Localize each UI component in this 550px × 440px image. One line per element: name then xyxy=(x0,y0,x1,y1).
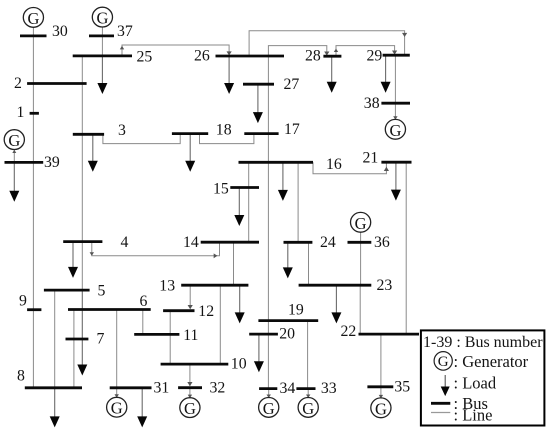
svg-text:25: 25 xyxy=(137,49,153,66)
svg-text:31: 31 xyxy=(154,380,170,397)
arrowhead 26-28 end xyxy=(324,51,329,55)
bus 24 xyxy=(284,241,313,244)
wire 34 to G34 xyxy=(268,389,270,398)
wire 29-38 xyxy=(394,55,396,103)
bus 30 xyxy=(20,35,47,38)
bus 7 xyxy=(66,338,89,341)
svg-text:16: 16 xyxy=(326,156,342,173)
bus 10 xyxy=(161,363,229,366)
svg-text:34: 34 xyxy=(280,380,296,397)
svg-text:G: G xyxy=(263,399,275,418)
svg-text:10: 10 xyxy=(231,356,247,373)
generator G at bus 37 xyxy=(92,7,112,27)
bus 17 xyxy=(244,132,278,135)
load at bus 24 xyxy=(283,242,293,278)
generator G at bus 39 xyxy=(4,130,24,150)
svg-text:19: 19 xyxy=(288,301,304,318)
generator G at bus 34 xyxy=(259,398,279,418)
load at bus 13 xyxy=(235,285,245,323)
wire G36 stub xyxy=(360,232,362,243)
wire line 26-28 xyxy=(268,46,326,56)
bus 4 xyxy=(63,240,102,243)
svg-text:: Load: : Load xyxy=(454,374,497,393)
bus 8 xyxy=(25,386,82,389)
wire 22-35 xyxy=(380,334,382,387)
load at bus 26 xyxy=(224,56,234,94)
wire 6-7-8 xyxy=(73,310,75,388)
svg-text:37: 37 xyxy=(117,23,133,40)
arrowhead into G32 xyxy=(188,395,192,399)
svg-text:17: 17 xyxy=(284,121,300,138)
svg-text:30: 30 xyxy=(52,23,68,40)
svg-text:13: 13 xyxy=(159,278,175,295)
legend box xyxy=(421,330,545,425)
bus 12 xyxy=(163,309,194,312)
wire 6-31 xyxy=(116,310,118,388)
arrowhead into G38 xyxy=(393,116,397,120)
bus 25 xyxy=(73,55,132,58)
wire 6-11 xyxy=(142,310,144,335)
wire 14-13 xyxy=(233,242,235,285)
bus 15 xyxy=(230,186,259,189)
wire 12-11-10 xyxy=(169,311,171,364)
bus 39 xyxy=(5,161,44,164)
generator G at bus 35 xyxy=(371,398,391,418)
wire 10-32 xyxy=(189,364,191,386)
svg-text:9: 9 xyxy=(19,292,27,309)
svg-text:1: 1 xyxy=(17,104,25,121)
load at bus 15 xyxy=(234,188,244,227)
load at bus 18 xyxy=(185,134,195,172)
wire G37 to 37 to 25 xyxy=(101,27,103,56)
wire 23-22 xyxy=(359,285,361,334)
svg-text:5: 5 xyxy=(98,283,106,300)
generator G at bus 30 xyxy=(23,8,43,28)
load at bus 29 xyxy=(381,55,391,93)
bus 28 xyxy=(323,55,341,58)
arrowhead 28-29 end xyxy=(392,50,397,54)
bus 16 xyxy=(239,161,314,164)
bus 37 xyxy=(89,35,114,38)
svg-text:G: G xyxy=(389,121,401,140)
svg-text:35: 35 xyxy=(394,379,410,396)
svg-text:G: G xyxy=(111,399,123,418)
load at bus 21 xyxy=(391,162,401,200)
bus 36 xyxy=(348,241,372,244)
svg-text:2: 2 xyxy=(14,75,22,92)
bus 31 xyxy=(110,386,152,389)
svg-text:22: 22 xyxy=(341,323,357,340)
svg-text:G: G xyxy=(355,214,367,233)
arrowhead 10-32 end xyxy=(187,382,192,386)
arrowhead 16-21 end xyxy=(384,167,389,171)
wire 32 to G32 xyxy=(189,388,191,398)
svg-text:4: 4 xyxy=(121,234,129,251)
arrowhead into G35 xyxy=(379,395,383,399)
bus 21 xyxy=(381,161,411,164)
wire line 18-17 xyxy=(200,134,254,144)
arrowhead into G31 xyxy=(115,394,119,398)
bus 38 xyxy=(381,102,410,105)
svg-text:15: 15 xyxy=(213,180,229,197)
load at bus 3 xyxy=(88,134,98,171)
load at bus 28 xyxy=(327,56,337,93)
load at bus 39 xyxy=(9,162,19,201)
wire 35 to G35 xyxy=(380,387,382,398)
bus 13 xyxy=(181,284,248,287)
svg-text:14: 14 xyxy=(183,234,199,251)
load at bus 27 xyxy=(253,84,263,123)
svg-text:G: G xyxy=(438,354,449,370)
svg-text:G: G xyxy=(375,399,387,418)
svg-text:: Generator: : Generator xyxy=(454,352,529,371)
arrowhead 28-29 start xyxy=(334,49,338,53)
svg-text:1-39 : Bus number: 1-39 : Bus number xyxy=(423,334,543,351)
generator G at bus 38 xyxy=(385,119,405,139)
svg-text:: Line: : Line xyxy=(454,405,493,424)
svg-text:33: 33 xyxy=(321,380,337,397)
bus 35 xyxy=(367,385,393,388)
load at bus 4 xyxy=(68,242,78,278)
arrowhead into G33 xyxy=(306,394,310,398)
bus 22 xyxy=(359,333,420,336)
svg-text:29: 29 xyxy=(367,48,383,65)
bus 3 xyxy=(73,133,104,136)
bus 5 xyxy=(44,289,90,292)
bus 6 xyxy=(68,308,151,311)
wire line 16-21 xyxy=(313,162,386,174)
svg-text:23: 23 xyxy=(377,277,393,294)
wire 26-27-17-16-19-20-34 column xyxy=(267,56,269,389)
bus 34 xyxy=(259,387,277,390)
arrowhead 26-29 corner xyxy=(402,33,407,37)
wire 19-33 xyxy=(307,321,309,389)
wire 31 to G31 xyxy=(116,388,118,397)
generator G at bus 36 xyxy=(351,212,371,232)
bus 26 xyxy=(216,55,285,58)
generator G at bus 31 xyxy=(107,397,127,417)
legend bus symbol xyxy=(431,402,450,405)
svg-text:G: G xyxy=(8,131,20,150)
svg-text:27: 27 xyxy=(284,76,300,93)
wire line 3-18 xyxy=(103,134,180,144)
arrowhead 4-14 corner xyxy=(90,252,94,256)
svg-text:G: G xyxy=(184,399,196,418)
arrowhead 13-12 end xyxy=(188,305,193,309)
wire 16-15-14 xyxy=(248,162,250,242)
load at bus 8 xyxy=(50,388,60,428)
wire line 25-26 xyxy=(122,45,229,56)
wire 38 to G38 xyxy=(394,103,396,119)
wire 24-23 xyxy=(308,242,310,285)
bus 20 xyxy=(249,333,278,336)
wire 16-24 xyxy=(297,162,299,242)
svg-text:12: 12 xyxy=(198,303,214,320)
load at bus 20 xyxy=(254,334,264,372)
arrowhead into G39 xyxy=(12,150,16,153)
wire line 28-29 xyxy=(336,46,395,57)
wire 36-23 xyxy=(360,242,362,285)
wire 30-2-1-39-9-8 column xyxy=(32,27,34,388)
load at bus 25 xyxy=(97,56,107,94)
wire line 4-14 xyxy=(92,242,220,256)
generator G at bus 32 xyxy=(180,398,200,418)
svg-text:3: 3 xyxy=(118,122,126,139)
svg-text:8: 8 xyxy=(17,368,25,385)
arrowhead 4-14 end xyxy=(214,253,218,258)
load at bus 7 xyxy=(77,290,87,375)
wire 13-12 xyxy=(189,285,191,308)
generator G at bus 33 xyxy=(298,398,318,418)
svg-text:26: 26 xyxy=(194,47,210,64)
arrowhead 25-26 end xyxy=(227,51,232,55)
svg-text:18: 18 xyxy=(216,122,232,139)
wire 5-8 xyxy=(54,290,56,388)
legend line symbol xyxy=(431,412,450,414)
bus 18 xyxy=(172,132,208,135)
wire line 26-29 xyxy=(249,31,405,56)
bus 19 xyxy=(258,319,318,322)
svg-text:G: G xyxy=(27,9,39,28)
svg-text:32: 32 xyxy=(210,379,226,396)
svg-text:38: 38 xyxy=(364,95,380,112)
bus 29 xyxy=(383,54,410,57)
bus 9 xyxy=(27,308,41,311)
bus 23 xyxy=(299,284,372,287)
arrowhead into G34 xyxy=(267,394,271,398)
bus 11 xyxy=(134,333,179,336)
svg-text:11: 11 xyxy=(183,327,198,344)
load at bus 23 xyxy=(331,285,341,323)
svg-text:28: 28 xyxy=(305,48,321,65)
wire 21-22 xyxy=(405,162,407,334)
svg-text:G: G xyxy=(302,399,314,418)
legend load symbol xyxy=(441,375,450,396)
bus 32 xyxy=(178,386,202,389)
bus 33 xyxy=(296,387,315,390)
load at bus 16 xyxy=(278,162,288,201)
bus 2 xyxy=(27,82,87,85)
bus 14 xyxy=(201,241,259,244)
svg-text:21: 21 xyxy=(363,150,379,167)
svg-text:G: G xyxy=(96,9,108,28)
wire G39 stub xyxy=(13,150,15,163)
wire 25-2-3-4-5 column xyxy=(81,56,83,290)
arrowhead 25-26 start xyxy=(120,46,124,50)
bus 27 xyxy=(243,83,274,86)
svg-text:36: 36 xyxy=(374,234,390,251)
bus 1 xyxy=(30,112,39,115)
wire 33 to G33 xyxy=(307,389,309,398)
svg-text:7: 7 xyxy=(97,331,105,348)
load at bus 31 xyxy=(137,388,147,428)
svg-text:24: 24 xyxy=(320,234,336,251)
svg-text:6: 6 xyxy=(140,293,148,310)
svg-text:39: 39 xyxy=(44,154,60,171)
svg-text:20: 20 xyxy=(279,326,295,343)
legend generator symbol xyxy=(434,352,452,371)
wire 13-10 xyxy=(219,285,221,364)
